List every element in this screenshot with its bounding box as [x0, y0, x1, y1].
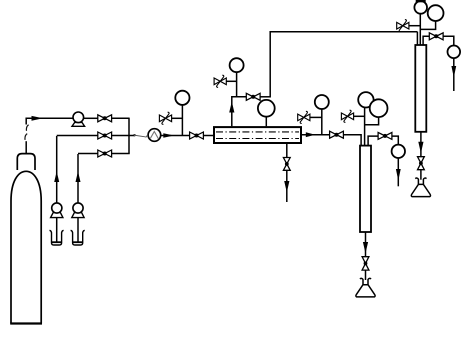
column C2 bottom pipe — [420, 132, 422, 157]
drain valve VD3 — [418, 157, 425, 170]
column C2 vessel — [415, 45, 426, 132]
drain arrow column C1 — [363, 242, 368, 253]
valve V2 — [98, 132, 112, 139]
column C1 offgas branch — [368, 136, 378, 146]
vent valve D — [341, 110, 353, 122]
rotameter FI1 — [148, 129, 161, 142]
vent valve C — [397, 20, 409, 32]
pipe rotameter to valve V4 — [161, 135, 190, 137]
pipe valve V4 to reactor — [203, 135, 213, 137]
pipe long line into column C2 — [416, 32, 418, 45]
flow indicator FI3 — [448, 46, 461, 59]
flow arrow reactor outlet — [306, 132, 316, 137]
feed riser from bubbler B1 — [56, 136, 58, 203]
gauge PI3 — [315, 95, 329, 109]
vent valve A — [159, 112, 171, 124]
rotameter chevron — [150, 132, 158, 139]
pipe pump P1 to valve V1 — [84, 117, 98, 119]
gauge PI5 — [370, 99, 388, 117]
reactor outlet pipe — [302, 134, 331, 136]
vent valve E stub — [309, 116, 321, 118]
gas cylinder cap — [17, 154, 35, 170]
vent valve B stub — [226, 80, 237, 82]
FI2 vent pipe — [397, 158, 399, 186]
gauge PI6 clipped top — [416, 0, 426, 2]
pipe valve V5 to long riser — [260, 96, 270, 98]
gauge PI1 stem — [181, 105, 183, 136]
pipe valve V6 to flow indicator FI3 — [443, 36, 454, 45]
vent valve E — [298, 111, 310, 123]
reactor centerline lower — [216, 138, 299, 140]
vent valve D stub — [353, 115, 364, 117]
gauge PI4 — [358, 92, 373, 107]
valve V8 — [378, 132, 392, 139]
reactor centerline upper — [216, 131, 299, 133]
pump P3 circle — [73, 203, 83, 213]
pipe end nub line2 — [133, 134, 135, 136]
gauge PI2 stem — [236, 72, 238, 97]
beaker B1 — [50, 230, 64, 245]
valve V3 — [98, 150, 112, 157]
long overhead line to column C2 — [270, 32, 417, 98]
dip tube into beaker B1 — [56, 218, 58, 242]
gauge PI1 — [175, 91, 189, 105]
valve V6 — [429, 33, 443, 40]
pipe line2 from bubbler corner to valve V2 — [57, 135, 98, 137]
flask F2 — [411, 178, 430, 197]
pipe to flask F1 — [365, 270, 367, 280]
FI3 vent pipe — [453, 58, 455, 91]
pipe line3 from bubbler corner to valve V3 — [78, 153, 98, 155]
pump P1 circle — [73, 112, 84, 123]
pump P1 base — [72, 122, 85, 126]
vent valve A stub — [171, 117, 182, 119]
header vertical connector — [128, 118, 130, 154]
drain arrow column C2 — [418, 142, 423, 153]
gauge PI6 — [414, 1, 427, 14]
vent arrow down FI2 — [396, 169, 401, 181]
valve V7 — [330, 131, 344, 138]
pipe to flask F2 — [420, 170, 422, 180]
valve V4 — [190, 132, 204, 139]
column C1 gauge line — [364, 108, 366, 146]
gauge PI7 elbow — [420, 21, 435, 30]
pipe valve V3 to header — [112, 153, 130, 155]
pipe line1 riser and corner — [26, 118, 73, 124]
pipe valve V8 to flow indicator — [392, 136, 398, 145]
drain arrow down — [284, 181, 289, 193]
column C1 vessel — [360, 146, 371, 232]
flexible hose to rotameter — [134, 134, 146, 137]
pipe valve V2 to flex — [112, 135, 135, 137]
flow arrow up B1 — [54, 171, 59, 182]
gauge PI3 stem — [321, 109, 323, 135]
flow arrow after rotameter — [163, 133, 174, 138]
flask F1 — [356, 278, 375, 297]
valve V5 — [246, 93, 260, 100]
gauge TI1 stem on reactor — [265, 117, 267, 127]
pump P2 circle — [52, 203, 62, 213]
column C2 gauge line — [419, 14, 421, 45]
flow indicator FI2 — [392, 145, 405, 158]
reactor drain stub — [286, 144, 288, 158]
column C1 bottom pipe — [365, 232, 367, 257]
vent valve B — [214, 75, 226, 87]
feed riser from bubbler B2 — [77, 154, 79, 203]
flow arrow up riser — [229, 102, 234, 113]
gauge PI7 — [428, 5, 444, 21]
vent valve C stub — [408, 25, 420, 27]
pipe valve V7 into column C1 — [343, 135, 361, 146]
drain valve VD1 — [283, 158, 290, 171]
pipe valve V1 to header — [112, 117, 129, 119]
column C2 offgas branch — [423, 36, 429, 45]
flow arrow up B2 — [76, 171, 81, 182]
gauge TI1 — [258, 100, 275, 117]
reactor drain outlet pipe — [286, 170, 288, 202]
pipe from cylinder cap — [25, 141, 27, 153]
dip tube into beaker B2 — [77, 218, 79, 242]
reactor vessel R1 — [214, 127, 301, 143]
beaker B2 — [71, 230, 85, 245]
flexible hose symbol — [25, 125, 29, 140]
gauge PI2 — [230, 58, 244, 72]
vent arrow down FI3 — [451, 66, 456, 78]
drain valve VD2 — [362, 257, 369, 270]
reactor overhead riser — [232, 97, 246, 127]
pump P2 base — [51, 213, 63, 218]
gas cylinder bottom — [10, 322, 42, 324]
gauge PI5 elbow — [365, 117, 379, 125]
pump P3 base — [72, 213, 84, 218]
valve V1 — [98, 115, 112, 122]
flow arrow on line1 — [32, 116, 44, 121]
gas cylinder body — [11, 171, 41, 323]
